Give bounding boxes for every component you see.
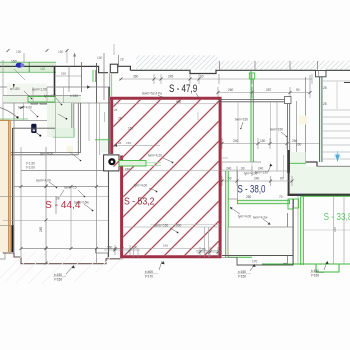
pale green blob right bbox=[101, 138, 109, 152]
svg-text:t=150: t=150 bbox=[54, 273, 62, 277]
svg-text:twm=150: twm=150 bbox=[235, 118, 248, 122]
svg-text:tamb=150: tamb=150 bbox=[154, 224, 168, 228]
red room hatch bbox=[114, 100, 219, 255]
svg-text:S - 47,9: S - 47,9 bbox=[169, 83, 197, 95]
leader arrows left bbox=[0, 108, 17, 117]
bottom-left wall steps bbox=[3, 253, 123, 264]
leader texts inside red room bbox=[134, 154, 182, 228]
dim line right of corridor bbox=[218, 75, 310, 98]
svg-text:90: 90 bbox=[241, 167, 245, 171]
S-38 green heater band bbox=[238, 200, 290, 203]
S-38 partition lines bbox=[237, 171, 239, 200]
svg-text:t=2,00: t=2,00 bbox=[26, 166, 35, 170]
svg-text:28: 28 bbox=[120, 58, 124, 62]
stairs treads bbox=[322, 81, 350, 159]
dimension risers top-left bbox=[67, 44, 199, 84]
left room tiny leader labels bbox=[10, 87, 134, 190]
leader labels corridor bbox=[235, 118, 283, 132]
svg-text:wym=4,00: wym=4,00 bbox=[36, 179, 51, 183]
green room S-33 outline bbox=[301, 195, 350, 197]
svg-text:150: 150 bbox=[61, 72, 66, 76]
pale yellow blob bbox=[67, 146, 74, 152]
svg-text:160: 160 bbox=[163, 244, 168, 248]
svg-text:290: 290 bbox=[296, 143, 302, 147]
svg-text:150: 150 bbox=[16, 50, 22, 54]
doorway risers top wall bbox=[104, 53, 119, 100]
svg-text:t=150: t=150 bbox=[70, 94, 78, 98]
vertical partition right bbox=[296, 101, 298, 173]
duct vertical double line bbox=[77, 103, 79, 155]
blue survey mark top-left bbox=[16, 63, 23, 68]
svg-text:t=400: t=400 bbox=[145, 270, 153, 274]
stairwell teal boundary bbox=[319, 77, 321, 162]
svg-text:265: 265 bbox=[39, 226, 43, 232]
line under green riser bbox=[222, 161, 261, 163]
wall line left bbox=[12, 128, 14, 252]
svg-text:160: 160 bbox=[107, 246, 113, 250]
svg-text:900: 900 bbox=[176, 224, 182, 228]
ticks on dim lines (45 deg) bbox=[7, 49, 312, 254]
svg-text:260: 260 bbox=[228, 88, 234, 92]
S-44 room grid lines bbox=[14, 186, 108, 188]
svg-text:900: 900 bbox=[176, 100, 182, 104]
tiny green jambs bbox=[92, 70, 94, 82]
svg-text:280: 280 bbox=[246, 195, 252, 199]
svg-text:Swm=52,4 Pa: Swm=52,4 Pa bbox=[142, 92, 162, 96]
svg-text:170: 170 bbox=[252, 260, 258, 264]
S-44 leader with arrow top bbox=[60, 190, 64, 196]
electric panel symbol bbox=[31, 124, 36, 133]
green tinted zone bbox=[47, 103, 74, 137]
svg-text:150: 150 bbox=[58, 50, 64, 54]
blue direction arrow bbox=[334, 153, 341, 160]
radiator boxes bbox=[31, 100, 38, 105]
svg-text:twm=150: twm=150 bbox=[270, 128, 283, 132]
svg-text:w=150: w=150 bbox=[10, 87, 20, 91]
svg-text:28: 28 bbox=[118, 141, 122, 145]
faint demolition hatch bottom-left bbox=[0, 251, 122, 284]
svg-text:240: 240 bbox=[233, 139, 239, 143]
svg-text:tym=150: tym=150 bbox=[44, 94, 57, 98]
top-left green band bbox=[0, 62, 56, 73]
top wall outline bbox=[0, 66, 350, 73]
tiny dim numbers top bbox=[16, 50, 124, 62]
svg-text:28: 28 bbox=[56, 197, 60, 201]
dim line above S-38 bbox=[222, 166, 320, 176]
svg-text:twm=4,2w: twm=4,2w bbox=[253, 216, 268, 220]
svg-text:150: 150 bbox=[40, 67, 46, 71]
S-38 dim line bbox=[222, 176, 292, 186]
svg-text:245: 245 bbox=[168, 75, 174, 79]
red room outer thick border bbox=[110, 97, 222, 258]
wall left of red room bbox=[108, 87, 110, 154]
svg-text:tamb=15w: tamb=15w bbox=[74, 201, 89, 205]
svg-text:tym=4,00: tym=4,00 bbox=[40, 152, 53, 156]
svg-text:70: 70 bbox=[279, 195, 283, 199]
landing green tint bbox=[290, 152, 306, 194]
svg-text:28: 28 bbox=[323, 102, 327, 106]
red room bottom dims bbox=[104, 245, 222, 257]
svg-text:twm=4,20: twm=4,20 bbox=[148, 154, 162, 158]
green vertical duct S-38 bbox=[225, 171, 227, 258]
green highlight square bbox=[53, 128, 74, 137]
svg-text:287: 287 bbox=[266, 88, 272, 92]
svg-text:90: 90 bbox=[280, 177, 284, 181]
white box with column symbol bbox=[104, 155, 119, 171]
svg-text:t=150: t=150 bbox=[238, 275, 246, 279]
left interior verticals bbox=[13, 103, 15, 257]
svg-text:tym=4,00: tym=4,00 bbox=[134, 184, 147, 188]
svg-text:twm=4,00: twm=4,00 bbox=[18, 106, 32, 110]
svg-text:360: 360 bbox=[133, 75, 139, 79]
svg-text:240: 240 bbox=[254, 177, 260, 181]
svg-text:190: 190 bbox=[132, 246, 138, 250]
svg-text:t=150: t=150 bbox=[311, 274, 319, 278]
top-left room walls bbox=[54, 67, 56, 96]
top wall window box bbox=[316, 71, 327, 77]
svg-text:S - 33,8: S - 33,8 bbox=[324, 212, 350, 223]
top wall pillar bbox=[110, 64, 117, 73]
landing wall steps right bbox=[303, 162, 350, 167]
svg-text:50: 50 bbox=[228, 177, 232, 181]
S-33 dim verticals bbox=[333, 196, 335, 264]
svg-text:90: 90 bbox=[202, 248, 206, 252]
bottom leader underlines bbox=[53, 273, 324, 277]
red room inner dim top bbox=[113, 103, 218, 105]
duct horizontal double line bbox=[11, 152, 81, 154]
svg-text:tym=4,00: tym=4,00 bbox=[238, 215, 251, 219]
top exterior wall hatch band bbox=[136, 55, 350, 70]
bottom leader boxes bbox=[54, 269, 319, 282]
left vertical line bbox=[2, 60, 4, 253]
gray lines crossing red room bbox=[123, 170, 220, 172]
svg-text:t=150: t=150 bbox=[54, 278, 62, 282]
svg-text:150: 150 bbox=[126, 141, 131, 145]
corridor dim line under top wall bbox=[119, 74, 312, 84]
svg-text:150: 150 bbox=[260, 139, 266, 143]
mid dim line bbox=[222, 138, 320, 149]
svg-text:298: 298 bbox=[333, 227, 337, 232]
svg-text:240: 240 bbox=[226, 167, 232, 171]
S-44 vertical dim ticks bbox=[45, 185, 48, 265]
stairwell wall line bbox=[305, 77, 307, 162]
S-38 lower room bbox=[228, 227, 293, 256]
horizontal line above white box bbox=[21, 170, 104, 172]
svg-text:28: 28 bbox=[118, 117, 122, 121]
svg-text:t=150: t=150 bbox=[311, 269, 319, 273]
svg-text:wym=1,50: wym=1,50 bbox=[32, 88, 47, 92]
pale green zone upper-left bbox=[7, 84, 47, 96]
svg-text:90: 90 bbox=[296, 88, 300, 92]
green lines inside red room bbox=[95, 139, 111, 141]
svg-text:twm=150: twm=150 bbox=[255, 171, 268, 175]
S-38 leaders bbox=[238, 215, 268, 220]
svg-text:28: 28 bbox=[323, 86, 327, 90]
green duct horizontal band bbox=[3, 96, 81, 104]
svg-text:150: 150 bbox=[97, 56, 103, 60]
wall joint risers through hatch band bbox=[220, 61, 318, 70]
svg-text:28: 28 bbox=[114, 108, 118, 112]
thick corner wall of S-33 room bbox=[288, 150, 290, 195]
svg-text:S - 53,2: S - 53,2 bbox=[124, 197, 155, 208]
svg-text:S - 38,0: S - 38,0 bbox=[238, 184, 266, 196]
green riser pipe center bbox=[249, 73, 254, 79]
svg-text:150: 150 bbox=[11, 60, 17, 64]
partition double wall around S-38 top bbox=[218, 100, 290, 173]
gray wall right room bbox=[287, 213, 289, 264]
svg-text:t=170: t=170 bbox=[145, 275, 153, 279]
orange pipe lines bbox=[0, 121, 9, 252]
green register box bbox=[28, 97, 55, 103]
svg-text:150: 150 bbox=[128, 127, 134, 131]
green door jamb to red corner bbox=[109, 73, 112, 97]
svg-text:t=150: t=150 bbox=[238, 270, 246, 274]
thick wall bottom-left bbox=[11, 225, 13, 252]
